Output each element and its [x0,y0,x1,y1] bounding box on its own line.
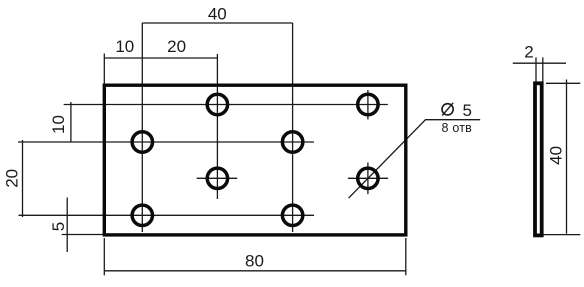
svg-text:40: 40 [547,146,566,165]
svg-text:80: 80 [245,252,264,271]
svg-text:8 отв: 8 отв [442,121,473,135]
svg-text:5: 5 [49,222,68,231]
svg-text:5: 5 [463,101,472,120]
svg-text:2: 2 [524,43,533,62]
svg-text:10: 10 [115,37,134,56]
svg-text:20: 20 [3,169,22,188]
svg-text:10: 10 [49,115,68,134]
svg-text:40: 40 [208,4,227,23]
svg-text:20: 20 [167,37,186,56]
